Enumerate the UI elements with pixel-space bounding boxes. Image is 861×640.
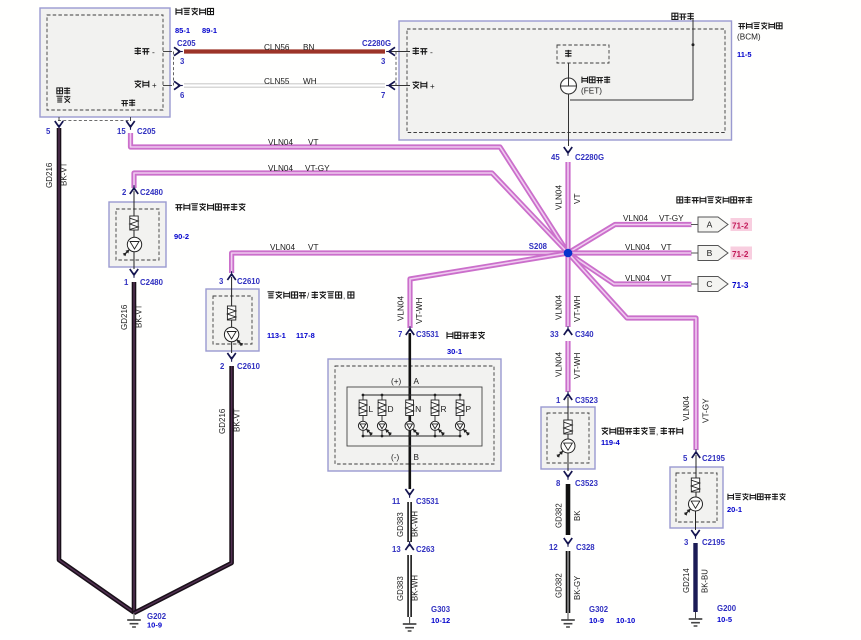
svg-text:45: 45 bbox=[551, 153, 560, 162]
svg-text:VT: VT bbox=[308, 243, 318, 252]
wire VLN04 VT from BCM C2280G-45 bbox=[565, 162, 570, 253]
wire label CLN55 WH bbox=[264, 77, 317, 86]
page refs 113-1 117-8 bbox=[267, 331, 315, 340]
svg-text:N: N bbox=[415, 404, 421, 414]
svg-text:C2480: C2480 bbox=[140, 188, 164, 197]
svg-text:,: , bbox=[343, 292, 345, 301]
pin 45 arrow C2280G bbox=[564, 147, 572, 156]
svg-text:VT-GY: VT-GY bbox=[305, 164, 330, 173]
svg-text:VT: VT bbox=[573, 194, 582, 204]
svg-text:VLN04: VLN04 bbox=[625, 243, 650, 252]
pin 5 exit arrow bbox=[55, 117, 63, 130]
seat wire to pin8 bbox=[567, 453, 569, 471]
svg-text:VLN04: VLN04 bbox=[682, 396, 691, 421]
svg-text:C328: C328 bbox=[576, 543, 595, 552]
svg-text:VLN04: VLN04 bbox=[623, 214, 648, 223]
svg-text:B: B bbox=[414, 453, 420, 462]
svg-text:VLN04: VLN04 bbox=[625, 274, 650, 283]
svg-text:C3531: C3531 bbox=[416, 330, 440, 339]
svg-text:90-2: 90-2 bbox=[174, 232, 189, 241]
headlight switch box 前照灯开关 bbox=[40, 8, 170, 117]
svg-text:(+): (+) bbox=[391, 377, 402, 386]
pin 7 arrow C3531 bbox=[406, 326, 414, 335]
svg-text:C2195: C2195 bbox=[702, 454, 726, 463]
ground G202 bbox=[127, 613, 141, 627]
wire VLN04 VT-WH to gear shift bbox=[410, 253, 568, 328]
svg-text:D: D bbox=[388, 404, 394, 414]
wire GD216 BK-VT center bbox=[132, 282, 137, 613]
wire VLN04 VT-WH to seat switch bbox=[565, 341, 570, 392]
pin 11 arrow C3531 bbox=[405, 489, 413, 498]
wire GD382 BK-GY bbox=[566, 551, 571, 613]
pin 15 exit arrow bbox=[126, 117, 134, 130]
svg-text:C2280G: C2280G bbox=[575, 153, 604, 162]
svg-text:VLN04: VLN04 bbox=[555, 352, 564, 377]
pin 1 arrow C2480 bbox=[130, 269, 138, 278]
svg-text:G303: G303 bbox=[431, 605, 451, 614]
connector tail B bbox=[691, 252, 698, 254]
svg-text:C2480: C2480 bbox=[140, 278, 164, 287]
wire label VLN04 VT-GY bbox=[623, 214, 684, 223]
svg-text:C3523: C3523 bbox=[575, 479, 599, 488]
wire CLN56 BN bbox=[184, 49, 385, 53]
wire label GD216 BK-VT vertical bbox=[45, 162, 69, 188]
label (+) A bbox=[391, 377, 420, 386]
pin arrow C2280G 3 bbox=[386, 47, 395, 55]
off-page connector C bbox=[698, 277, 728, 292]
wire label VLN04 VT bbox=[625, 274, 671, 283]
top bus bbox=[363, 394, 460, 396]
svg-text:10-9: 10-9 bbox=[147, 621, 162, 630]
svg-text:C340: C340 bbox=[575, 330, 594, 339]
wire GD216 BK-VT right bbox=[134, 366, 232, 613]
svg-text:,: , bbox=[656, 428, 658, 437]
svg-text:VT-WH: VT-WH bbox=[415, 298, 424, 324]
svg-text:1: 1 bbox=[124, 278, 129, 287]
FET label bbox=[581, 76, 610, 95]
svg-text:3: 3 bbox=[381, 57, 386, 66]
wire VLN04 VT-WH down to C340 bbox=[565, 253, 570, 327]
wire label VLN04 VT-GY bbox=[268, 164, 330, 173]
wire VLN04 VT from C205-15 to S208 bbox=[131, 133, 569, 253]
off-page connector A bbox=[698, 217, 728, 232]
ref 71-2 highlighted bbox=[731, 247, 753, 260]
wire VLN04 VT-GY to ignition switch bbox=[568, 253, 696, 450]
svg-text:GD216: GD216 bbox=[45, 162, 54, 188]
svg-text:+: + bbox=[430, 82, 435, 91]
BCM pin 调亮+ bbox=[388, 81, 435, 91]
svg-text:33: 33 bbox=[550, 330, 559, 339]
branch P bbox=[455, 394, 471, 438]
svg-text:VLN04: VLN04 bbox=[555, 185, 564, 210]
svg-text:BK-GY: BK-GY bbox=[573, 575, 582, 600]
branch D bbox=[377, 394, 393, 438]
svg-text:6: 6 bbox=[180, 91, 185, 100]
wire label VLN04 VT vertical bbox=[555, 185, 583, 210]
svg-text:119-4: 119-4 bbox=[601, 438, 621, 447]
svg-text:P: P bbox=[466, 404, 472, 414]
svg-text:C2610: C2610 bbox=[237, 277, 261, 286]
wire label GD216 BK-VT vertical bbox=[218, 408, 242, 434]
svg-text:BK-WH: BK-WH bbox=[411, 511, 420, 537]
ignition resistor bbox=[691, 478, 699, 492]
svg-text:BK-WH: BK-WH bbox=[411, 575, 420, 601]
pin 3 arrow C205 bbox=[174, 47, 183, 55]
branch R bbox=[430, 394, 446, 438]
svg-text:VT: VT bbox=[308, 138, 318, 147]
svg-text:A: A bbox=[707, 220, 713, 230]
svg-text:VT-WH: VT-WH bbox=[573, 353, 582, 379]
svg-text:2: 2 bbox=[220, 362, 225, 371]
wire stub pin3 bbox=[163, 51, 172, 53]
svg-text:(BCM): (BCM) bbox=[737, 33, 761, 42]
wire label VLN04 VT-GY vertical bbox=[682, 396, 711, 423]
pin 3 arrow C2610 bbox=[227, 271, 235, 280]
svg-text:13: 13 bbox=[392, 545, 401, 554]
svg-text:117-8: 117-8 bbox=[296, 331, 315, 340]
svg-text:5: 5 bbox=[46, 127, 51, 136]
wire label GD383 BK-WH vertical bbox=[396, 511, 420, 537]
label 调亮 + (bright plus) bbox=[135, 80, 158, 90]
connector C205 bottom bracket dashed bbox=[58, 120, 131, 122]
svg-text:GD216: GD216 bbox=[218, 408, 227, 434]
trunk wire to pin2 bbox=[231, 342, 233, 353]
hazard resistor bbox=[130, 216, 138, 230]
svg-text:C3531: C3531 bbox=[416, 497, 440, 506]
svg-text:BN: BN bbox=[303, 43, 314, 52]
wire label CLN56 BN bbox=[264, 43, 314, 52]
svg-text:3: 3 bbox=[684, 538, 689, 547]
wire label GD382 BK vertical bbox=[555, 503, 583, 528]
wire label VLN04 VT-WH vertical bbox=[397, 296, 425, 324]
wire VLN04 VT to instrument C bbox=[568, 253, 692, 284]
ground G200 bbox=[689, 612, 703, 626]
svg-text:BK-VT: BK-VT bbox=[135, 304, 144, 328]
svg-text:7: 7 bbox=[398, 330, 402, 339]
hazard flasher switch box 危险警告闪光器开关 bbox=[109, 202, 166, 267]
svg-text:BK-BU: BK-BU bbox=[701, 569, 710, 593]
trunk internal wire bbox=[231, 277, 233, 327]
label 照明 (illumination) bbox=[121, 99, 135, 106]
ignition internal wire bbox=[695, 455, 697, 498]
svg-text:VT: VT bbox=[661, 274, 671, 283]
micro box 微 bbox=[557, 45, 609, 63]
svg-text:VLN04: VLN04 bbox=[555, 295, 564, 320]
wire GD382 BK bbox=[566, 484, 571, 535]
pin 2 arrow C2610 bbox=[227, 353, 235, 362]
svg-text:12: 12 bbox=[549, 543, 558, 552]
gear shift title 变速杆总成 bbox=[447, 332, 485, 339]
svg-text:8: 8 bbox=[556, 479, 561, 488]
heated seat title bbox=[602, 427, 683, 436]
svg-text:C263: C263 bbox=[416, 545, 435, 554]
trunk open/close switch box 行李箱打开/关闭开关,前 bbox=[206, 289, 259, 351]
trunk lamp bbox=[224, 327, 243, 346]
pin 5 arrow C2195 bbox=[692, 449, 700, 458]
svg-text:B: B bbox=[707, 248, 713, 258]
pin 6 arrow C205 bbox=[174, 81, 183, 89]
svg-text:G302: G302 bbox=[589, 605, 609, 614]
wire micro to FET bbox=[568, 63, 570, 78]
svg-text:+: + bbox=[152, 81, 157, 90]
seat resistor bbox=[564, 420, 572, 434]
wire label GD216 BK-VT vertical bbox=[120, 304, 144, 330]
svg-text:VT: VT bbox=[661, 243, 671, 252]
connector tail C bbox=[691, 283, 698, 285]
svg-text:A: A bbox=[414, 377, 420, 386]
headlight switch title bbox=[176, 8, 214, 15]
wire VLN04 VT to instrument B bbox=[568, 250, 692, 255]
BCM body control module box bbox=[399, 21, 732, 140]
pin 8 arrow C3523 bbox=[564, 471, 572, 480]
pin 33 arrow C340 bbox=[564, 326, 572, 335]
wire through gear shift bbox=[408, 333, 411, 489]
wire GD383 BK-WH upper bbox=[407, 502, 412, 542]
wire label GD214 BK-BU vertical bbox=[682, 568, 710, 593]
svg-text:VLN04: VLN04 bbox=[268, 164, 293, 173]
svg-text:C205: C205 bbox=[177, 39, 196, 48]
seat lamp bbox=[556, 439, 575, 458]
svg-text:-: - bbox=[152, 47, 155, 57]
svg-text:71-2: 71-2 bbox=[732, 222, 749, 231]
svg-text:71-3: 71-3 bbox=[732, 281, 749, 290]
svg-text:(FET): (FET) bbox=[581, 87, 602, 96]
svg-text:11: 11 bbox=[392, 497, 401, 506]
label 照明/接地 (illum ground) bbox=[56, 87, 70, 102]
heated seat switch box 加热式座椅开关 bbox=[541, 407, 595, 469]
hazard wire to pin1 bbox=[133, 252, 135, 269]
svg-text:2: 2 bbox=[122, 188, 127, 197]
svg-text:C2195: C2195 bbox=[702, 538, 726, 547]
branch L bbox=[358, 394, 373, 438]
svg-text:C205: C205 bbox=[137, 127, 156, 136]
svg-text:C2610: C2610 bbox=[237, 362, 261, 371]
wire label VLN04 VT bbox=[625, 243, 671, 252]
pin 3 arrow C2195 bbox=[691, 530, 699, 539]
pin 2 arrow C2480 bbox=[130, 185, 138, 194]
ignition lamp bbox=[684, 497, 703, 516]
svg-text:85-1: 85-1 bbox=[175, 26, 190, 35]
pin 13 arrow C263 bbox=[405, 541, 413, 550]
ignition switch box 点火开关按钮启动 bbox=[670, 467, 723, 528]
trunk resistor bbox=[227, 306, 235, 320]
svg-text:BK-VT: BK-VT bbox=[233, 408, 242, 432]
hazard switch title bbox=[175, 203, 245, 210]
svg-text:BK-VT: BK-VT bbox=[60, 162, 69, 186]
wire GD216 BK-VT left bbox=[59, 128, 134, 613]
svg-text:113-1: 113-1 bbox=[267, 331, 286, 340]
label 调暗 - (dim minus) bbox=[135, 47, 155, 57]
svg-text:G200: G200 bbox=[717, 604, 737, 613]
svg-text:10-12: 10-12 bbox=[431, 616, 450, 625]
power feed wire bbox=[570, 20, 693, 101]
svg-text:CLN55: CLN55 bbox=[264, 77, 290, 86]
junction dot on power wire bbox=[692, 43, 695, 46]
svg-text:7: 7 bbox=[381, 91, 385, 100]
svg-text:71-2: 71-2 bbox=[732, 250, 749, 259]
hazard internal wire bbox=[133, 191, 135, 237]
wire label VLN04 VT bbox=[268, 138, 318, 147]
pin 1 arrow C3523 bbox=[564, 391, 572, 400]
hazard lamp bbox=[123, 237, 142, 256]
svg-text:-: - bbox=[430, 47, 433, 57]
off-page connector B bbox=[698, 246, 728, 261]
svg-text:11-5: 11-5 bbox=[737, 50, 752, 59]
svg-text:10-9: 10-9 bbox=[589, 616, 604, 625]
wire GD214 BK-BU bbox=[693, 543, 697, 612]
wire label GD383 BK-WH vertical bbox=[396, 575, 420, 601]
wire label GD382 BK-GY vertical bbox=[555, 573, 583, 600]
splice S208 bbox=[529, 242, 573, 257]
svg-text:3: 3 bbox=[180, 57, 185, 66]
branch N bbox=[405, 394, 421, 438]
svg-text:VT-GY: VT-GY bbox=[702, 398, 711, 423]
svg-text:GD383: GD383 bbox=[396, 512, 405, 537]
svg-text:VLN04: VLN04 bbox=[268, 138, 293, 147]
svg-text:15: 15 bbox=[117, 127, 126, 136]
wire VLN04 VT-GY to hazard switch bbox=[134, 173, 568, 253]
wire label VLN04 VT-WH vertical bbox=[555, 295, 583, 322]
wire VLN04 VT-GY to instrument A bbox=[568, 225, 692, 254]
connector tail A bbox=[691, 224, 698, 226]
svg-text:VT-GY: VT-GY bbox=[659, 214, 684, 223]
bottom bus bbox=[363, 435, 460, 437]
svg-text:20-1: 20-1 bbox=[727, 505, 742, 514]
wire GD383 BK-WH lower bbox=[407, 555, 412, 617]
svg-text:1: 1 bbox=[556, 396, 561, 405]
svg-text:(-): (-) bbox=[391, 453, 399, 462]
svg-text:R: R bbox=[441, 404, 447, 414]
svg-text:VLN04: VLN04 bbox=[270, 243, 295, 252]
svg-text:GD214: GD214 bbox=[682, 568, 691, 593]
svg-text:CLN56: CLN56 bbox=[264, 43, 290, 52]
wire VLN04 VT to trunk switch bbox=[232, 253, 568, 273]
ignition wire to pin3 bbox=[695, 511, 697, 530]
BCM title 车身控制模块 (BCM) bbox=[737, 22, 782, 41]
ground G302 bbox=[561, 613, 575, 627]
svg-text:10-10: 10-10 bbox=[616, 616, 635, 625]
FET driver symbol 背景照明(FET) bbox=[561, 78, 577, 94]
pin 12 arrow C328 bbox=[564, 538, 572, 547]
svg-text:C2280G: C2280G bbox=[362, 39, 391, 48]
svg-text:5: 5 bbox=[683, 454, 688, 463]
svg-text:GD382: GD382 bbox=[555, 573, 564, 598]
wire stub pin6 bbox=[163, 85, 172, 87]
svg-text:30-1: 30-1 bbox=[447, 347, 462, 356]
wire label VLN04 VT bbox=[270, 243, 318, 252]
trunk switch title bbox=[268, 291, 354, 300]
pin arrow C2280G 7 bbox=[386, 81, 395, 89]
ignition title bbox=[728, 493, 786, 500]
seat internal wire bbox=[567, 397, 569, 440]
svg-text:S208: S208 bbox=[529, 242, 548, 251]
header 组合仪表和仪表板照明 bbox=[677, 196, 752, 203]
connector C2280G left bracket dashed bbox=[395, 52, 397, 86]
ground G303 bbox=[403, 617, 417, 631]
svg-text:3: 3 bbox=[219, 277, 224, 286]
svg-text:C3523: C3523 bbox=[575, 396, 599, 405]
connector C205 right bracket dashed bbox=[173, 52, 175, 86]
label 常电源 (constant power) bbox=[672, 13, 694, 20]
BCM pin 调暗- bbox=[388, 47, 433, 57]
wire FET down to C2280G bbox=[568, 94, 570, 146]
gear shift inner assembly rect bbox=[347, 387, 482, 446]
svg-text:L: L bbox=[369, 404, 374, 414]
svg-text:BK: BK bbox=[573, 510, 582, 521]
gear shift box 变速杆总成 bbox=[328, 359, 501, 471]
svg-text:89-1: 89-1 bbox=[202, 26, 217, 35]
svg-text:GD383: GD383 bbox=[396, 576, 405, 601]
ref 71-2 highlighted bbox=[731, 218, 753, 231]
svg-text:VLN04: VLN04 bbox=[397, 296, 406, 321]
svg-text:WH: WH bbox=[303, 77, 317, 86]
svg-text:10-5: 10-5 bbox=[717, 615, 732, 624]
svg-text:C: C bbox=[706, 279, 712, 289]
svg-text:GD216: GD216 bbox=[120, 304, 129, 330]
wire CLN55 WH bbox=[184, 84, 385, 88]
svg-text:VT-WH: VT-WH bbox=[573, 296, 582, 322]
label (-) B bbox=[391, 453, 420, 462]
wire label VLN04 VT-WH vertical bbox=[555, 352, 583, 379]
svg-text:GD382: GD382 bbox=[555, 503, 564, 528]
